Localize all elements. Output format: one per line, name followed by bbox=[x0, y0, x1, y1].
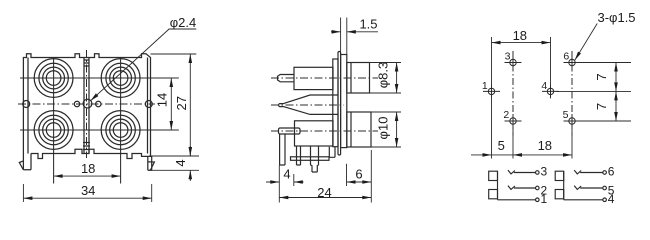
svg-text:7: 7 bbox=[594, 73, 609, 80]
svg-text:34: 34 bbox=[81, 183, 95, 198]
svg-text:φ8.3: φ8.3 bbox=[376, 62, 391, 89]
arrowheads dimension 1.5 bbox=[332, 30, 341, 34]
column centerline pads 3-2 bbox=[512, 51, 514, 136]
schematic pin 5 terminal bbox=[603, 186, 607, 190]
flange tab strip bbox=[338, 52, 341, 156]
right slot hole bbox=[96, 101, 101, 106]
row centerline top bbox=[20, 77, 179, 79]
side view centerline top row bbox=[271, 77, 378, 79]
svg-text:4: 4 bbox=[283, 167, 290, 182]
svg-text:φ10: φ10 bbox=[376, 117, 391, 140]
channel ribs top bbox=[84, 60, 89, 66]
column centerline pads 6-5 bbox=[571, 51, 573, 136]
top jack pin bbox=[278, 75, 295, 82]
schematic pin 3 terminal bbox=[536, 171, 540, 175]
arrowheads dimension 34 bbox=[23, 196, 32, 200]
center hole phi2.4 bbox=[83, 99, 92, 108]
jack J1 circles top-left bbox=[34, 59, 73, 98]
svg-text:3-φ1.5: 3-φ1.5 bbox=[597, 10, 635, 25]
arrowheads dimension 27 bbox=[189, 54, 193, 63]
center channel right line bbox=[88, 58, 90, 154]
jack J4 circles bottom-right bbox=[101, 111, 140, 150]
schematic pin 4 terminal bbox=[603, 198, 607, 202]
svg-text:6: 6 bbox=[355, 167, 362, 182]
dimension 4 side lines bbox=[266, 174, 304, 186]
dimension 4 right lines bbox=[149, 146, 199, 181]
middle leg bbox=[297, 146, 301, 165]
svg-text:18: 18 bbox=[538, 138, 552, 153]
front view outline with top tabs bbox=[23, 54, 150, 170]
leader line phi2.4 bbox=[91, 29, 197, 101]
dimension 27 lines bbox=[151, 54, 197, 156]
vertical center dash-dot line bbox=[86, 50, 88, 158]
svg-text:14: 14 bbox=[154, 93, 169, 107]
svg-text:4: 4 bbox=[608, 192, 615, 206]
barrel phi8.3 bbox=[347, 63, 370, 94]
center leg bbox=[311, 146, 319, 172]
arrowhead phi2.4 leader bbox=[91, 93, 99, 100]
dimension 5 and 18 pcb bottom lines bbox=[471, 99, 572, 159]
bottom jack body side view bbox=[295, 121, 334, 146]
arrowheads dimension 24 bbox=[279, 196, 288, 200]
svg-text:1.5: 1.5 bbox=[359, 17, 377, 32]
dimension phi10 lines bbox=[371, 112, 401, 147]
dimension 34 lines bbox=[23, 184, 151, 202]
left slot hole bbox=[74, 101, 79, 106]
dimension phi8.3 lines bbox=[370, 63, 402, 94]
right edge notch arc bbox=[145, 101, 152, 108]
center channel left line bbox=[83, 58, 85, 154]
dimension 7 lines bbox=[556, 63, 631, 122]
svg-text:7: 7 bbox=[594, 103, 609, 110]
center funnel contact bbox=[279, 95, 338, 114]
schematic pin 2 terminal bbox=[536, 186, 540, 190]
pad 5 bbox=[564, 114, 581, 128]
arrowheads dimension phi10 bbox=[395, 112, 399, 121]
svg-text:1: 1 bbox=[541, 192, 548, 206]
schematic wire pin 1 bbox=[498, 199, 536, 201]
svg-text:6: 6 bbox=[563, 51, 569, 63]
arrowheads dimension 14 bbox=[170, 78, 174, 87]
schematic left bus wire bbox=[497, 171, 499, 200]
left mounting foot bbox=[19, 154, 31, 170]
svg-text:4: 4 bbox=[541, 80, 547, 92]
arrowheads dimension 7 upper bbox=[614, 63, 618, 72]
svg-text:2: 2 bbox=[503, 109, 509, 121]
channel ribs bottom bbox=[83, 143, 90, 150]
schematic right bus wire bbox=[563, 171, 565, 200]
jack column centerline right bbox=[120, 58, 122, 184]
bottom jack flat pin bbox=[279, 128, 301, 134]
top jack body side view bbox=[294, 67, 333, 89]
svg-text:3: 3 bbox=[505, 51, 511, 63]
schematic wire pin 4 bbox=[564, 199, 603, 201]
barrel phi10 nut line bbox=[350, 112, 352, 147]
dimension 6 lines bbox=[347, 164, 372, 186]
schematic switch contact pin 6 bbox=[574, 170, 603, 174]
dimension 24 lines bbox=[279, 150, 371, 203]
svg-text:4: 4 bbox=[173, 159, 188, 166]
dimension 18 pcb top lines bbox=[492, 37, 551, 85]
front view bottom edge with notches bbox=[31, 149, 152, 158]
dimension 18 front lines bbox=[54, 175, 121, 177]
svg-text:18: 18 bbox=[81, 161, 95, 176]
schematic switch contact pin 2 bbox=[508, 186, 536, 190]
right mounting foot bbox=[148, 156, 155, 170]
barrel phi8.3 nut line bbox=[350, 63, 352, 94]
housing rear plate bbox=[333, 59, 338, 147]
arrowhead dimension 4 right bbox=[189, 170, 193, 179]
svg-text:3: 3 bbox=[541, 165, 548, 179]
arrowheads dimension 18 pcb top bbox=[492, 41, 501, 45]
mounting flange plate bbox=[341, 55, 347, 148]
arrowheads dimension 5-18 bottom bbox=[483, 153, 492, 157]
schematic right jack body squares bbox=[555, 171, 564, 180]
dimension 14 lines bbox=[154, 78, 179, 130]
row centerline bottom bbox=[20, 129, 179, 131]
schematic pin 6 terminal bbox=[603, 171, 607, 175]
arrowheads dimension 4 side bbox=[270, 180, 279, 184]
jack column centerline left bbox=[53, 58, 55, 184]
side view centerline bottom row bbox=[271, 130, 378, 132]
arrowheads dimension 18 front bbox=[54, 174, 63, 178]
svg-text:1: 1 bbox=[482, 80, 488, 92]
barrel phi10 bbox=[347, 112, 371, 147]
foot plate bbox=[291, 157, 330, 161]
svg-text:5: 5 bbox=[563, 109, 569, 121]
horizontal middle dash-dot line bbox=[18, 103, 155, 105]
svg-text:27: 27 bbox=[174, 96, 189, 110]
front view inner right edge bbox=[147, 58, 149, 154]
schematic left jack body squares bbox=[489, 171, 498, 180]
arrowheads dimension 6 bbox=[347, 180, 356, 184]
pad 3 bbox=[505, 56, 522, 70]
arrowheads dimension phi8.3 bbox=[395, 63, 399, 72]
jack J3 circles bottom-left bbox=[34, 111, 73, 150]
svg-text:φ2.4: φ2.4 bbox=[170, 15, 197, 30]
front leg bbox=[280, 134, 285, 165]
svg-text:18: 18 bbox=[513, 28, 527, 43]
side view centerline middle bbox=[271, 104, 344, 106]
leader 3-phi1.5 bbox=[575, 24, 597, 61]
dimension 1.5 lines bbox=[331, 18, 378, 55]
jack J2 circles top-right bbox=[101, 59, 140, 98]
right step under housing bbox=[329, 147, 335, 158]
front view inner left edge bbox=[27, 58, 29, 154]
svg-text:5: 5 bbox=[498, 138, 505, 153]
svg-text:6: 6 bbox=[608, 165, 615, 179]
schematic pin 1 terminal bbox=[536, 198, 540, 202]
left edge notch arc bbox=[23, 101, 30, 108]
arrowhead leader 3-phi1.5 bbox=[575, 52, 581, 61]
svg-text:24: 24 bbox=[317, 185, 331, 200]
pad 4 bbox=[542, 84, 559, 98]
schematic switch contact pin 3 bbox=[508, 170, 536, 174]
arrowheads dimension 7 lower bbox=[614, 91, 618, 100]
pad 1 bbox=[483, 84, 500, 98]
pad 6 bbox=[564, 56, 581, 70]
pad 2 bbox=[505, 114, 522, 128]
schematic switch contact pin 5 bbox=[574, 186, 603, 190]
